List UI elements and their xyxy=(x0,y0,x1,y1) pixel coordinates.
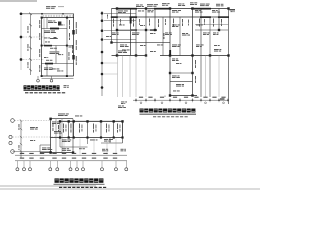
plan3 label xyxy=(75,115,82,118)
plan2 thick beam top2 xyxy=(154,8,171,10)
beam tag v xyxy=(164,19,167,25)
grid bubble P3-A xyxy=(11,119,15,123)
column xyxy=(86,120,88,122)
dim stub xyxy=(154,98,156,102)
plan1 speck b xyxy=(50,47,57,50)
compartment label xyxy=(105,124,108,133)
plan3 lower stub xyxy=(106,139,108,155)
beam label L103 xyxy=(44,31,56,34)
ann xyxy=(106,15,109,19)
plan1 small blob xyxy=(54,37,57,39)
axis stub xyxy=(76,161,78,168)
plan1 bottom dim line xyxy=(42,77,74,79)
beam label xyxy=(157,44,163,47)
dim text xyxy=(160,97,164,98)
plan3 label xyxy=(30,127,38,130)
column xyxy=(227,54,229,56)
dim tick xyxy=(20,119,22,121)
plan3 label xyxy=(90,139,98,142)
beam label xyxy=(120,45,129,48)
dim stub xyxy=(218,98,220,102)
plan2 beam row A xyxy=(112,16,230,18)
column xyxy=(191,72,193,74)
compartment label xyxy=(116,124,119,133)
column xyxy=(169,72,171,74)
beam tag v xyxy=(112,19,115,27)
column xyxy=(116,7,118,9)
plan2 thick beam A4 xyxy=(218,16,229,18)
beam tag v xyxy=(138,19,141,25)
plan2 lower grid line xyxy=(117,56,119,98)
grid bubble L1 xyxy=(101,12,104,15)
plan3 left block inner v1 xyxy=(55,119,57,153)
plan2 thick beam top1 xyxy=(116,8,137,10)
plan1 dim tick node xyxy=(62,13,64,15)
beam label xyxy=(173,90,180,93)
dim text xyxy=(203,97,207,98)
beam label xyxy=(176,62,181,65)
plan2 wall/grid vertical xyxy=(218,9,220,31)
grid bubble P3-C xyxy=(9,141,12,144)
dim text xyxy=(221,97,225,98)
plan1 beam row1 xyxy=(42,28,68,30)
beam label xyxy=(172,10,181,13)
axis stub xyxy=(56,161,58,168)
grid bubble L8 xyxy=(101,86,104,89)
axis bubble bottom xyxy=(76,168,79,171)
beam label L102 xyxy=(48,21,57,24)
beam tag v xyxy=(119,19,122,25)
column xyxy=(41,75,43,77)
dim stub xyxy=(135,98,137,102)
dim text xyxy=(184,97,188,98)
beam label xyxy=(140,24,145,27)
dim node xyxy=(209,99,211,101)
beam tag v xyxy=(172,19,175,27)
dim text xyxy=(40,153,44,154)
dim text xyxy=(173,97,177,98)
plan2 thick column bar xyxy=(130,17,132,24)
plan2 lower grid line right xyxy=(200,56,202,98)
column xyxy=(66,75,68,77)
column xyxy=(116,54,118,56)
column xyxy=(113,136,115,138)
dim tick xyxy=(29,24,32,26)
vertical ann xyxy=(194,60,197,68)
beam label xyxy=(172,59,179,62)
plan2 right small mark xyxy=(231,10,235,13)
plan2 top label e xyxy=(178,4,185,7)
column xyxy=(100,136,102,138)
plan1 left tag v3 xyxy=(38,49,41,57)
dim tick xyxy=(20,128,22,130)
column xyxy=(145,54,147,56)
plan3 label xyxy=(42,148,52,151)
plan2 wall/grid vertical xyxy=(116,9,118,56)
plan3 small wing west xyxy=(39,145,41,153)
plan2 title underline xyxy=(140,113,197,115)
column xyxy=(66,17,68,19)
plan3 lower stub xyxy=(93,139,95,155)
axis stub xyxy=(23,161,25,168)
plan1 top leader xyxy=(58,6,64,8)
plan2 top label f xyxy=(216,4,224,7)
beam label xyxy=(106,35,111,38)
plan3 grid line B xyxy=(13,136,61,138)
grid bubble L4 xyxy=(101,38,104,41)
plan3 band top wall xyxy=(60,120,123,122)
beam label L105 xyxy=(44,68,53,71)
column xyxy=(86,136,88,138)
axis stub xyxy=(29,161,31,168)
axis bubble bottom xyxy=(125,168,128,171)
plan2 top label xyxy=(147,4,158,7)
beam label xyxy=(118,51,127,54)
beam label xyxy=(140,44,145,47)
plan1 top wall xyxy=(42,17,75,19)
plan1 right ann xyxy=(68,33,71,40)
ann xyxy=(163,33,166,39)
plan1 inner wall x44 xyxy=(43,18,45,46)
plan1 beam row2 xyxy=(42,45,74,47)
page bottom scan line left darker xyxy=(0,185,96,187)
plan3 title xyxy=(55,178,104,182)
beam label xyxy=(196,24,203,27)
plan2 lower grid line xyxy=(145,56,147,98)
plan3 lower stub xyxy=(63,139,65,155)
plan2 grid line 1 xyxy=(104,12,136,14)
beam thick segment xyxy=(50,28,59,30)
dim text xyxy=(92,153,96,154)
plan3 band vertical xyxy=(100,121,102,137)
plan3 grid line D xyxy=(13,151,53,153)
plan1 left tag v1 xyxy=(38,20,41,28)
dim text xyxy=(113,153,117,154)
compartment label xyxy=(70,124,73,133)
grid bubble L6 xyxy=(101,62,104,65)
column xyxy=(169,54,171,56)
beam label xyxy=(118,11,128,14)
plan2 wall/grid vertical xyxy=(154,9,156,31)
plan2 grid line 4 xyxy=(104,39,136,41)
plan1 title underline xyxy=(24,90,61,92)
beam tag v xyxy=(132,19,135,27)
axis bubble bottom small xyxy=(140,102,142,104)
plan3 left block west wall xyxy=(50,119,52,153)
compartment label 2 xyxy=(95,125,98,132)
plan3 label xyxy=(104,139,113,142)
column xyxy=(169,7,171,9)
plan3 label xyxy=(52,122,60,125)
plan2 wall/grid vertical xyxy=(192,9,194,96)
dim text xyxy=(18,145,21,150)
plan2 wall/grid vertical xyxy=(130,9,132,56)
dim text2 xyxy=(82,158,86,159)
plan3 small wing xyxy=(40,144,51,146)
axis bubble bottom xyxy=(101,168,104,171)
plan1 top wall hatch ticks xyxy=(42,15,72,17)
plan1 left axis vertical xyxy=(20,16,22,71)
plan1 speck g xyxy=(45,41,50,44)
plan3 lower stub xyxy=(79,139,81,155)
plan2 bottom dimension line xyxy=(133,99,229,101)
dim text right xyxy=(220,98,225,99)
plan3 stub down2 xyxy=(59,138,61,148)
plan1 partition xyxy=(46,64,48,77)
beam label xyxy=(112,33,119,36)
beam label xyxy=(50,37,58,40)
dim text2 xyxy=(20,158,24,159)
dim node xyxy=(145,99,147,101)
column xyxy=(72,151,74,153)
plan2 lower grid line right xyxy=(218,56,220,98)
compartment label 2 xyxy=(108,125,111,132)
plan1 speck a xyxy=(44,37,50,40)
plan3 lower stub xyxy=(115,139,117,155)
plan2 right label xyxy=(214,49,221,52)
plan2 top label d xyxy=(136,5,144,8)
beam label xyxy=(213,33,219,36)
dim tick xyxy=(29,69,32,71)
dim stub xyxy=(169,98,171,102)
column xyxy=(68,120,70,122)
plan1 partition xyxy=(46,18,48,29)
beam tag v xyxy=(148,19,151,26)
dim node xyxy=(227,99,229,101)
column xyxy=(191,54,193,56)
plan2 left axis line xyxy=(101,11,103,96)
plan1 partition xyxy=(55,46,57,64)
compartment label 2 xyxy=(119,125,122,132)
plan3 top right label xyxy=(118,106,126,109)
plan2 lower edge left xyxy=(112,55,147,57)
column xyxy=(154,29,156,31)
axis bubble bottom xyxy=(29,168,32,171)
plan2 wall/grid vertical xyxy=(111,9,113,43)
axis bubble bottom xyxy=(23,168,26,171)
beam label xyxy=(165,33,172,36)
plan2 beam row y24 right xyxy=(195,24,229,26)
beam label xyxy=(46,59,52,62)
axis bubble bottom xyxy=(56,168,59,171)
plan2 thick beam A2 xyxy=(130,16,138,18)
plan1 bottom wall xyxy=(42,75,74,77)
stub xyxy=(164,96,166,98)
dim text2 xyxy=(103,158,107,159)
plan1 speck f xyxy=(60,24,65,27)
beam label xyxy=(138,10,144,13)
plan2 lower edge right xyxy=(160,55,229,57)
beam label L104 xyxy=(50,52,60,55)
plan3 low beam right xyxy=(101,142,123,144)
plan3 band bottom wall xyxy=(51,137,123,139)
dim stub xyxy=(227,98,229,102)
dim text xyxy=(62,153,66,154)
beam label xyxy=(119,24,125,27)
dim stub xyxy=(209,98,211,102)
dim tick xyxy=(20,150,22,152)
plan3 stub down3 xyxy=(109,138,111,144)
plan2 lower grid line right xyxy=(205,56,207,98)
dim text xyxy=(18,124,21,130)
dim text xyxy=(52,153,56,154)
plan2 wall/grid vertical xyxy=(162,17,164,56)
beam label xyxy=(172,45,181,48)
axis bubble bottom xyxy=(69,168,72,171)
axis bubble bottom xyxy=(115,168,118,171)
axis stub xyxy=(101,161,103,168)
dim text2 xyxy=(40,158,44,159)
grid bubble L7 xyxy=(101,73,104,76)
beam label xyxy=(57,70,63,73)
plan3 left dim line xyxy=(20,121,22,159)
plan2 grid line y74 xyxy=(104,73,118,75)
beam label xyxy=(214,44,220,47)
plan1 left dim text xyxy=(27,62,30,68)
plan1 right tag v6 xyxy=(68,52,71,60)
plan3 band vertical xyxy=(73,121,75,137)
dim stub xyxy=(200,98,202,102)
dim text xyxy=(72,153,76,154)
beam label xyxy=(212,10,220,13)
plan3 title note xyxy=(59,187,106,188)
axis bubble bottom small xyxy=(223,102,225,104)
left block label 2 xyxy=(57,125,60,132)
plan2 ext beam 2 xyxy=(170,81,193,83)
dim stub xyxy=(192,98,194,102)
plan1 shear wall blob xyxy=(58,22,61,26)
plan2 thick wall bar xyxy=(169,50,171,57)
dim tick xyxy=(20,143,22,145)
column xyxy=(73,136,75,138)
plan3 top label xyxy=(58,114,69,117)
plan1 beam row3 xyxy=(42,63,74,65)
beam tag v xyxy=(181,19,184,26)
plan2 wall/grid vertical xyxy=(179,17,181,56)
dim text xyxy=(139,97,143,98)
plan2 wall/grid vertical xyxy=(228,9,230,105)
beam tag v xyxy=(187,20,190,26)
column xyxy=(227,7,229,9)
column xyxy=(218,29,220,31)
plan1 title note xyxy=(25,92,65,93)
plan1 top dimension line xyxy=(21,13,74,15)
grid bubble axis 2 xyxy=(20,36,23,39)
plan3 band vertical xyxy=(68,121,70,137)
column xyxy=(66,45,68,47)
dim stub xyxy=(179,98,181,102)
plan2 lower grid line xyxy=(122,56,124,98)
column xyxy=(73,120,75,122)
dim text xyxy=(212,97,216,98)
column xyxy=(121,136,123,138)
beam label xyxy=(150,50,156,53)
wall pier xyxy=(72,30,74,35)
column xyxy=(100,120,102,122)
plan1 right dim xyxy=(75,22,78,34)
plan1 left tag v2 xyxy=(38,33,41,40)
plan2 thick beam A1 xyxy=(111,16,118,18)
axis bubble bottom xyxy=(16,168,19,171)
plan1 title xyxy=(24,85,60,89)
plan3 stub down xyxy=(87,138,89,145)
dim text xyxy=(148,97,152,98)
dim tick xyxy=(29,36,32,38)
beam tag v xyxy=(198,19,201,27)
plan3 band vertical xyxy=(87,121,89,137)
plan2 beam row B right xyxy=(195,29,228,31)
plan2 title xyxy=(140,109,196,113)
plan2 wall/grid vertical xyxy=(145,9,147,56)
dim node xyxy=(218,99,220,101)
plan3 left block inner v2 xyxy=(61,119,63,153)
dim text2 xyxy=(62,158,66,159)
beam label xyxy=(196,45,204,48)
plan1 speck e xyxy=(52,68,59,71)
beam label xyxy=(122,49,130,52)
plan1 right dim xyxy=(75,40,78,50)
plan1 speck c xyxy=(58,53,63,56)
plan3 band vertical xyxy=(113,121,115,137)
wall pier xyxy=(72,55,74,60)
axis stub xyxy=(115,161,117,168)
plan2 ext beam 1 xyxy=(170,72,193,74)
plan3 low label 2 xyxy=(79,147,85,150)
plan3 left block east wall xyxy=(72,119,74,153)
plan2 thick beam B2 xyxy=(150,29,157,30)
plan3 east wall xyxy=(122,121,124,143)
plan2 grid line y63 xyxy=(104,62,118,64)
axis stub xyxy=(125,161,127,168)
dim text2 xyxy=(52,158,56,159)
dim text xyxy=(194,97,198,98)
compartment label xyxy=(92,124,95,133)
plan3 low beam xyxy=(60,146,88,148)
plan1 scale note xyxy=(64,85,69,88)
dim node xyxy=(169,99,171,101)
beam label xyxy=(150,32,155,35)
compartment label 2 xyxy=(81,125,84,132)
plan3 far top right mark xyxy=(121,102,127,105)
plan1 thick beam seg xyxy=(44,45,52,47)
axis stub xyxy=(37,76,39,79)
axis bubble bottom xyxy=(82,168,85,171)
plan3 label xyxy=(30,139,35,142)
column xyxy=(169,94,171,96)
plan2 title note xyxy=(153,115,188,118)
column xyxy=(59,136,61,138)
plan2 wall/grid vertical xyxy=(135,9,137,56)
plan1 dim tick node xyxy=(41,13,43,15)
plan2 lower grid line xyxy=(135,56,137,98)
dim text xyxy=(82,153,86,154)
dim node xyxy=(135,99,137,101)
grid bubble bottom 1 xyxy=(37,79,40,82)
grid bubble axis A xyxy=(20,12,23,15)
plan3 label xyxy=(54,131,62,134)
beam label xyxy=(182,33,190,36)
plan1 left tag v4 xyxy=(38,65,41,72)
dim stub xyxy=(145,98,147,102)
compartment label xyxy=(78,124,81,133)
axis bubble bottom small xyxy=(205,102,207,104)
beam label xyxy=(203,33,210,36)
page top edge artifact xyxy=(0,0,37,2)
plan2 top label right xyxy=(200,4,210,7)
column xyxy=(191,7,193,9)
plan1 left dim text xyxy=(27,26,30,33)
plan3 left block bottom wall xyxy=(40,152,73,154)
